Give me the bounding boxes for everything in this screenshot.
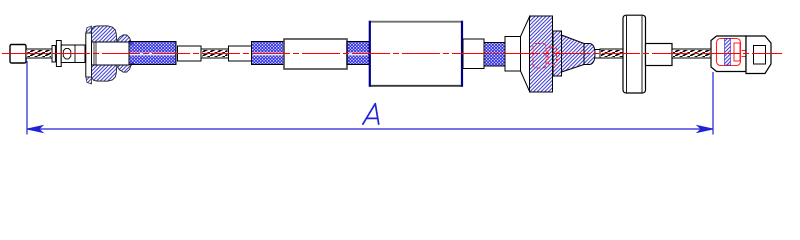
hidden nipple in barrel (red) [717,39,747,66]
threaded rod mid [600,49,624,58]
conduit sheath section 3 [347,42,369,65]
dimension extension line right [712,72,714,135]
hidden cable in bell (red dashed) [533,44,561,69]
cable between nose and rod [595,50,601,59]
grommet taper [562,35,585,72]
spacer bushing [646,44,673,66]
conduit sheath section 4 [484,43,505,67]
end cap socket [746,36,771,74]
end fitting barrel [711,36,746,72]
outlet tube A [463,39,484,69]
large damper housing [369,21,463,87]
conduit sheath section 2 [252,42,285,65]
flange upper hatched cap [86,26,92,33]
inner cable exposed (hatched rod) [201,49,229,58]
left end barrel nipple [10,45,26,64]
barrel section hatch band [725,39,731,66]
flange lower hatched cap [86,77,92,84]
outlet tube B [505,37,521,72]
grommet step ring [553,31,562,76]
bell flange hatched [530,16,553,92]
dimension line A [27,126,713,133]
adjuster washer 1 [52,46,55,63]
grommet upper hatched body [92,26,134,44]
threaded rod right [672,49,711,58]
grommet core tube [92,42,130,65]
left threaded rod [26,49,52,58]
outer tube 1 [178,46,202,61]
grommet lower hatched body [92,63,134,81]
dimension extension line left [26,61,28,135]
centerline [2,53,782,55]
outer tube 2 [229,46,252,61]
grommet nose [584,44,595,65]
adjuster body with nipple slot [61,45,85,63]
adjuster washer 2 [56,41,61,67]
bracket flange plate [86,33,92,77]
bell cone flanks [521,16,530,92]
roller cylinder [623,15,646,93]
label A [363,104,379,125]
damper cylinder small [284,39,347,69]
conduit sheath section 1 [129,42,176,65]
